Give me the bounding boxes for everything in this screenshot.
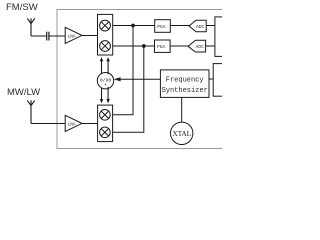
wire antenna to capacitor bbox=[31, 35, 46, 37]
wire LNA to FM mixer block bbox=[82, 35, 98, 37]
0/90 phase splitter bbox=[97, 73, 113, 89]
svg-text:Frequency: Frequency bbox=[166, 77, 204, 85]
capacitor C1 bbox=[47, 32, 49, 41]
AM quadrature mixer block bbox=[98, 105, 113, 142]
XTAL crystal oscillator bbox=[171, 122, 193, 144]
svg-text:Synthesizer: Synthesizer bbox=[162, 87, 208, 95]
mixer I (FM) bbox=[100, 20, 111, 31]
DSP block (cut off at right edge) bbox=[215, 17, 255, 57]
wire PGA2 to ADC2 bbox=[170, 45, 188, 47]
junction node I bbox=[131, 24, 135, 28]
svg-text:PGA: PGA bbox=[157, 44, 166, 50]
FM quadrature mixer block bbox=[98, 14, 113, 55]
wire PGA1 to ADC1 bbox=[170, 25, 189, 27]
antenna ANT1 (FM/SW) bbox=[27, 18, 35, 36]
ADC1 bbox=[189, 20, 206, 32]
svg-text:ADC: ADC bbox=[196, 24, 205, 30]
PGA2 bbox=[155, 40, 171, 52]
PGA1 bbox=[155, 20, 171, 33]
svg-text:LNA: LNA bbox=[68, 33, 76, 39]
svg-text:XTAL: XTAL bbox=[172, 129, 191, 138]
wire AM mixer I output riser bbox=[113, 26, 133, 115]
LO arrows up to FM mixers bbox=[102, 61, 109, 75]
wire synthesizer to XTAL bbox=[181, 97, 183, 122]
LNA amplifier (FM) bbox=[65, 27, 82, 43]
wire ADC2 to DSP bbox=[206, 45, 215, 47]
svg-text:FM/SW: FM/SW bbox=[6, 2, 38, 13]
wire antenna to LNA (AM) bbox=[31, 123, 65, 125]
wire LNA to AM mixer block bbox=[82, 123, 98, 125]
mixer Q (AM) bbox=[100, 127, 111, 138]
wire capacitor to LNA bbox=[49, 35, 65, 37]
wire mixer Q out to PGA2 bbox=[113, 45, 155, 47]
svg-text:PGA: PGA bbox=[157, 24, 166, 30]
svg-text:ADC: ADC bbox=[196, 44, 205, 50]
wire ADC1 to DSP bbox=[206, 25, 215, 27]
audio block (cut off at right edge) bbox=[213, 64, 253, 97]
wire synthesizer to audio block bbox=[209, 78, 213, 80]
mixer Q (FM) bbox=[100, 41, 111, 52]
mixer I (AM) bbox=[100, 110, 111, 121]
junction node Q bbox=[142, 44, 146, 48]
svg-text:0/90: 0/90 bbox=[100, 77, 112, 83]
antenna ANT2 (MW/LW) bbox=[27, 100, 35, 123]
Frequency Synthesizer U2 bbox=[160, 70, 209, 98]
svg-text:MW/LW: MW/LW bbox=[7, 87, 40, 98]
chip boundary box bbox=[57, 10, 307, 149]
svg-text:LNA: LNA bbox=[68, 121, 76, 127]
wire mixer I out to PGA1 bbox=[113, 25, 155, 27]
LO arrows down to AM mixers bbox=[102, 87, 109, 100]
wire synthesizer to 0/90 splitter with arrow bbox=[120, 78, 161, 80]
ADC2 bbox=[188, 40, 206, 52]
wire AM mixer Q output riser bbox=[113, 46, 144, 132]
LNA amplifier (AM) bbox=[65, 115, 82, 131]
